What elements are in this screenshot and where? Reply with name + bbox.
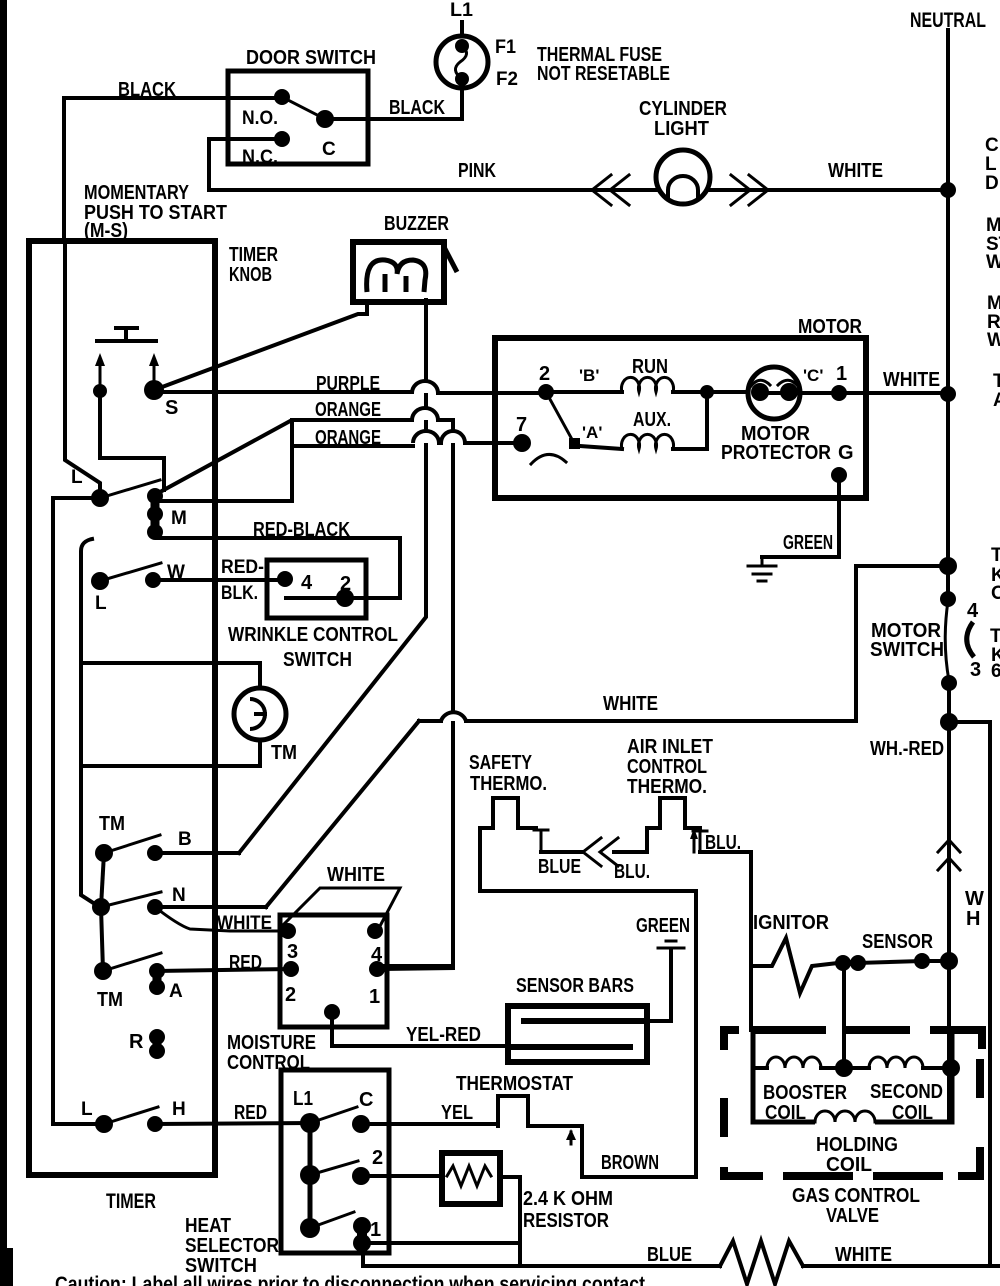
- svg-text:THERMOSTAT: THERMOSTAT: [456, 1073, 573, 1095]
- svg-text:GREEN: GREEN: [783, 532, 833, 554]
- junction N row: [92, 898, 110, 916]
- wire: blue run to air inlet thermo: [541, 850, 581, 854]
- contact L (W row): [91, 572, 109, 590]
- second coil: [844, 1066, 869, 1070]
- svg-text:1: 1: [369, 986, 380, 1008]
- arm pole3: [310, 1212, 354, 1228]
- wire: H to heat selector L1: [155, 1123, 310, 1124]
- svg-text:'B': 'B': [579, 366, 599, 385]
- contact A stack: [153, 971, 162, 987]
- wrinkle control switch box: [267, 560, 366, 618]
- svg-text:WH.-RED: WH.-RED: [870, 738, 944, 760]
- motor protector: [748, 367, 800, 419]
- svg-text:RESISTOR: RESISTOR: [523, 1210, 609, 1232]
- svg-text:VALVE: VALVE: [826, 1205, 879, 1227]
- resistor zigzag: [447, 1166, 491, 1186]
- junction neutral x white: [939, 557, 957, 575]
- svg-text:1: 1: [370, 1219, 381, 1241]
- svg-text:COIL: COIL: [826, 1154, 872, 1176]
- ignitor zigzag: [751, 938, 838, 993]
- svg-text:WHITE: WHITE: [327, 864, 385, 886]
- svg-text:TIMER: TIMER: [229, 244, 278, 266]
- junction run/aux: [700, 385, 714, 399]
- svg-text:SENSOR BARS: SENSOR BARS: [516, 975, 634, 997]
- sensor wire: [858, 961, 949, 963]
- wrinkle contact 4: [277, 571, 293, 587]
- svg-text:3: 3: [287, 941, 298, 963]
- chevrons blue: [583, 838, 618, 866]
- svg-text:MOMENTARY: MOMENTARY: [84, 182, 190, 204]
- svg-text:WHITE: WHITE: [883, 369, 940, 391]
- resistor 2.4k box: [442, 1153, 500, 1204]
- arm L to W: [100, 563, 161, 581]
- wire: moisture bottom to sensor bars: [332, 1012, 508, 1046]
- svg-text:ORANGE: ORANGE: [315, 427, 381, 449]
- svg-text:BLU.: BLU.: [614, 861, 650, 883]
- svg-text:PURPLE: PURPLE: [316, 373, 380, 395]
- heat sel pole 2: [300, 1165, 320, 1185]
- svg-text:BOOSTER: BOOSTER: [763, 1082, 847, 1104]
- svg-text:T: T: [990, 626, 1000, 647]
- door switch contact N.C.: [274, 131, 290, 147]
- svg-text:F2: F2: [496, 69, 518, 90]
- chevrons right of cylinder light: [731, 175, 768, 205]
- wire orange1: M to descent corner: [160, 420, 412, 492]
- svg-text:WHITE: WHITE: [828, 160, 883, 182]
- thermostat tick: [570, 1132, 573, 1144]
- contact TM (B row): [95, 844, 113, 862]
- svg-text:ORANGE: ORANGE: [315, 399, 381, 421]
- motor contact 2: [538, 384, 554, 400]
- gas valve inner box: [753, 1030, 952, 1122]
- door switch contact C: [316, 110, 334, 128]
- svg-text:T: T: [993, 371, 1000, 392]
- svg-text:W: W: [987, 330, 1000, 351]
- chevrons left of cylinder light: [592, 175, 629, 205]
- wire red-black: M to wrinkle 2: [157, 538, 400, 598]
- svg-text:WHITE: WHITE: [835, 1244, 892, 1266]
- svg-text:R: R: [129, 1031, 144, 1053]
- svg-text:PROTECTOR: PROTECTOR: [721, 442, 831, 464]
- contact L (bottom row): [95, 1115, 113, 1133]
- svg-text:SENSOR: SENSOR: [862, 931, 933, 953]
- TM lamp: [234, 688, 286, 740]
- WH up arrows: [938, 840, 960, 870]
- svg-text:SECOND: SECOND: [870, 1081, 943, 1103]
- svg-text:RUN: RUN: [632, 356, 668, 378]
- moisture pin 3: [280, 923, 296, 939]
- arm N: [101, 892, 161, 907]
- door switch DS1 box: [228, 71, 368, 164]
- ground symbol (motor): [748, 557, 776, 581]
- wire to protector: [707, 390, 748, 394]
- svg-text:CONTROL: CONTROL: [627, 756, 707, 778]
- contact H: [147, 1116, 163, 1132]
- svg-text:BLUE: BLUE: [538, 856, 581, 878]
- svg-text:M: M: [987, 293, 1000, 314]
- safety thermo symbol: [480, 798, 536, 828]
- wire: G to ground: [762, 475, 839, 557]
- svg-text:D: D: [985, 173, 999, 194]
- svg-text:WHITE: WHITE: [603, 693, 658, 715]
- wire: pin1 to orange1 descent: [377, 968, 453, 969]
- wire: inner vertical from top to L: [65, 241, 100, 491]
- booster coil: [753, 1066, 767, 1070]
- svg-text:TIMER: TIMER: [106, 1190, 156, 1213]
- svg-text:YEL: YEL: [441, 1102, 473, 1124]
- run winding coil: [554, 390, 622, 394]
- svg-text:RED-: RED-: [221, 557, 264, 578]
- wire: A to moisture pin 2: [157, 969, 291, 971]
- svg-text:F1: F1: [495, 37, 516, 58]
- svg-text:RED: RED: [229, 952, 262, 974]
- heat sel pole link: [308, 1123, 313, 1228]
- cylinder light lamp: [656, 150, 710, 204]
- door switch contact N.O.: [274, 89, 290, 105]
- junction sensor x WH line: [940, 952, 958, 970]
- wire: left vertical x=53 down to L-H row: [53, 498, 104, 1124]
- svg-text:Caution: Label all wires prior: Caution: Label all wires prior to discon…: [55, 1273, 645, 1286]
- arm L to H: [104, 1107, 158, 1124]
- svg-text:H: H: [966, 908, 980, 930]
- scan border left edge: [0, 0, 7, 1286]
- svg-text:6: 6: [991, 661, 1000, 682]
- moisture pin 4: [367, 923, 383, 939]
- junction neutral x pink: [940, 182, 956, 198]
- contact M stack: [151, 496, 160, 532]
- contact L upper: [91, 489, 109, 507]
- heat sel contact 2: [352, 1167, 370, 1185]
- door switch arm N.O. to C: [282, 97, 325, 119]
- svg-text:MOTOR: MOTOR: [798, 316, 862, 338]
- heat sel pole 3: [300, 1218, 320, 1238]
- ignitor junction dots: [835, 955, 851, 971]
- wire: safety thermo left loop: [480, 828, 696, 1177]
- svg-text:TM: TM: [271, 742, 297, 764]
- wrinkle contact 2: [336, 589, 354, 607]
- wire: bottom blue run: [363, 1264, 720, 1268]
- svg-text:RED-BLACK: RED-BLACK: [253, 519, 350, 541]
- svg-text:4: 4: [967, 600, 979, 622]
- wire: orange1 descent vertical x=453 to moisture pin 1: [374, 420, 453, 966]
- contact R stack: [153, 1037, 162, 1051]
- svg-text:'C': 'C': [803, 366, 823, 385]
- svg-text:IGNITOR: IGNITOR: [753, 912, 830, 934]
- svg-text:C: C: [322, 139, 336, 160]
- svg-text:BUZZER: BUZZER: [384, 213, 449, 235]
- wire: heat sel 2 to resistor: [361, 1174, 442, 1178]
- wire: B to D1: [155, 851, 239, 855]
- sensor bar lower: [508, 1044, 633, 1050]
- wire wrinkle internal to 2: [286, 596, 345, 600]
- wire: black from left to door switch N.O.: [64, 96, 282, 100]
- wire: buzzer terminal vertical to D1 diagonal (to timer B): [239, 300, 426, 853]
- wire: pink/white run to neutral: [209, 188, 948, 192]
- wire: inner shelf y=663 to TM lamp: [81, 661, 260, 665]
- arm L1-C: [310, 1107, 357, 1123]
- wire: long white run to neutral: [419, 719, 441, 723]
- svg-text:A: A: [169, 981, 183, 1002]
- wire: thermostat down to brown: [582, 1127, 696, 1177]
- gas valve dashed box: [724, 1030, 982, 1176]
- aux winding coil: [580, 446, 622, 449]
- svg-text:2: 2: [372, 1147, 383, 1169]
- svg-text:L1: L1: [450, 0, 473, 21]
- svg-text:CYLINDER: CYLINDER: [639, 98, 727, 120]
- motor arm motion arc: [531, 454, 566, 464]
- moisture bottom pin: [324, 1004, 340, 1020]
- sensor contact dot: [914, 953, 930, 969]
- svg-text:YEL-RED: YEL-RED: [406, 1024, 481, 1046]
- arm A: [103, 953, 161, 971]
- svg-text:3: 3: [970, 659, 981, 681]
- svg-text:W: W: [986, 252, 1000, 273]
- svg-text:N.C.: N.C.: [242, 147, 278, 168]
- contact N: [147, 899, 163, 915]
- motor contact 7: [513, 434, 531, 452]
- wire: neutral lower vertical (WH): [947, 683, 951, 1122]
- svg-text:LIGHT: LIGHT: [654, 118, 709, 140]
- svg-text:TM: TM: [99, 813, 125, 835]
- motor contact G: [831, 467, 847, 483]
- svg-text:RED: RED: [234, 1102, 267, 1124]
- wire: fuse to L1 stub: [460, 22, 464, 36]
- svg-text:MOISTURE: MOISTURE: [227, 1032, 316, 1054]
- moisture pin 1: [369, 961, 385, 977]
- wire: inner vertical x=81: [81, 539, 98, 906]
- arm TM to B: [104, 835, 160, 853]
- svg-text:7: 7: [516, 414, 527, 436]
- svg-text:C: C: [985, 135, 999, 156]
- svg-text:C: C: [359, 1089, 373, 1111]
- svg-text:T: T: [991, 545, 1000, 566]
- wire: buzzer left terminal to S diagonal: [154, 303, 367, 390]
- svg-text:SWITCH: SWITCH: [870, 639, 944, 661]
- contact W: [145, 572, 161, 588]
- contact B: [147, 845, 163, 861]
- motor arm 2 to A: [546, 392, 574, 443]
- svg-text:AIR INLET: AIR INLET: [627, 736, 713, 758]
- moisture pin 2: [283, 961, 299, 977]
- svg-text:DOOR SWITCH: DOOR SWITCH: [246, 47, 376, 69]
- svg-text:SWITCH: SWITCH: [283, 649, 352, 671]
- thermal fuse F1/F2: [436, 36, 488, 88]
- wire: L to left vertical: [53, 496, 100, 500]
- svg-text:GAS CONTROL: GAS CONTROL: [792, 1185, 920, 1207]
- svg-text:L: L: [81, 1099, 93, 1120]
- arm L to M: [100, 480, 160, 498]
- wire orange2: M bottom to motor 7: [292, 444, 413, 448]
- wire: N down to moisture pin 3: [155, 907, 288, 931]
- blu tick arrow: [693, 835, 696, 852]
- svg-text:O: O: [991, 583, 1000, 604]
- svg-text:SAFETY: SAFETY: [469, 752, 533, 774]
- wire: air inlet to ignitor vertical: [700, 852, 751, 1030]
- svg-text:BROWN: BROWN: [601, 1152, 659, 1174]
- heat selector switch box: [281, 1070, 389, 1253]
- arm pole2: [310, 1161, 358, 1175]
- timer outer box: [29, 241, 215, 1175]
- wire: neutral branch to right border: [949, 722, 990, 1266]
- svg-text:W: W: [965, 888, 984, 910]
- svg-text:BLACK: BLACK: [118, 79, 176, 101]
- motor contact 1: [831, 385, 847, 401]
- svg-text:H: H: [172, 1099, 186, 1120]
- contact TM (A row): [94, 962, 112, 980]
- svg-text:GREEN: GREEN: [636, 915, 690, 937]
- svg-text:N.O.: N.O.: [242, 108, 278, 129]
- ground symbol (sensor): [658, 941, 684, 948]
- svg-text:N: N: [172, 885, 186, 906]
- svg-text:M: M: [986, 215, 1000, 236]
- motor box M1: [495, 338, 866, 498]
- push button arrows: [100, 362, 154, 387]
- svg-text:WHITE: WHITE: [217, 913, 272, 934]
- buzzer coil: [367, 260, 426, 292]
- wire: ignitor junction down to coils: [842, 963, 846, 1068]
- svg-text:NOT RESETABLE: NOT RESETABLE: [537, 63, 670, 85]
- heat sel contact 1 stack: [357, 1226, 367, 1243]
- diagonal D2: white wire to N: [266, 721, 419, 907]
- wire: door N.C. to pink wire corner: [209, 139, 282, 190]
- svg-text:'A': 'A': [582, 423, 602, 442]
- wire protector to 1 to neutral: [800, 391, 948, 395]
- svg-text:1: 1: [836, 363, 847, 385]
- wire: link N to A: [101, 907, 103, 971]
- buzzer striker stub: [444, 247, 457, 272]
- svg-text:AUX.: AUX.: [633, 409, 671, 431]
- svg-text:2.4 K OHM: 2.4 K OHM: [523, 1188, 613, 1210]
- wire: neutral main vertical: [946, 30, 950, 599]
- momentary contact left: [93, 384, 107, 398]
- svg-text:S: S: [165, 397, 178, 419]
- air inlet control thermo symbol: [647, 798, 700, 852]
- heat sel contact C: [352, 1115, 370, 1133]
- svg-text:BLUE: BLUE: [647, 1244, 692, 1266]
- sensor bar upper: [521, 1018, 645, 1024]
- svg-text:HOLDING: HOLDING: [816, 1134, 898, 1156]
- wire: TM lamp top stem: [258, 663, 262, 688]
- wire: C to thermostat: [361, 1122, 498, 1126]
- second coil right junction: [942, 1059, 960, 1077]
- svg-text:B: B: [178, 829, 192, 850]
- bottom zigzag: [720, 1241, 803, 1284]
- momentary contact S: [144, 380, 164, 400]
- moisture control white callout: [282, 888, 400, 926]
- svg-text:BLK.: BLK.: [221, 583, 258, 604]
- svg-text:L1: L1: [293, 1088, 313, 1110]
- wire: left push contact down and over: [100, 391, 164, 490]
- junction neutral x motor white: [940, 386, 956, 402]
- push button bar: [97, 328, 156, 341]
- svg-text:HEAT: HEAT: [185, 1215, 231, 1237]
- heat sel pole L1: [300, 1113, 320, 1133]
- svg-text:TM: TM: [97, 989, 123, 1011]
- svg-text:2: 2: [285, 984, 296, 1006]
- wire: door C to thermal fuse: [325, 90, 462, 119]
- wire purple: S to motor 2 with hop: [154, 390, 412, 394]
- wire: motor switch arm on neutral: [945, 601, 949, 681]
- svg-text:THERMO.: THERMO.: [627, 776, 707, 798]
- wire: N to D2 takeoff: [155, 905, 266, 909]
- holding coil: [815, 1111, 875, 1122]
- svg-text:4: 4: [301, 572, 313, 594]
- junction booster/second: [835, 1059, 853, 1077]
- svg-text:COIL: COIL: [765, 1102, 806, 1124]
- svg-text:BLACK: BLACK: [389, 97, 445, 119]
- svg-text:A: A: [993, 390, 1000, 411]
- svg-text:2: 2: [539, 363, 550, 385]
- moisture control box: [280, 915, 387, 1027]
- svg-text:KNOB: KNOB: [229, 264, 272, 286]
- sensor bars box: [508, 1006, 647, 1062]
- svg-text:L: L: [95, 593, 107, 614]
- motor switch bracket: [967, 622, 974, 657]
- svg-text:G: G: [838, 442, 854, 464]
- wire: vertical black down to timer box: [62, 98, 66, 241]
- svg-text:L: L: [71, 467, 83, 488]
- wire: heat sel 1 to resistor drop: [362, 1241, 520, 1245]
- thermostat symbol: [498, 1096, 582, 1126]
- svg-text:M: M: [171, 508, 187, 529]
- svg-text:SELECTOR: SELECTOR: [185, 1235, 279, 1257]
- buzzer box: [353, 242, 444, 302]
- svg-text:L: L: [985, 154, 997, 175]
- wire: W to wrinkle 4: [153, 578, 285, 582]
- motor switch contacts on neutral: [940, 591, 956, 607]
- svg-text:THERMO.: THERMO.: [470, 773, 547, 795]
- wire: bottom white run: [803, 1264, 1000, 1268]
- wire: ground to sensor bar: [645, 950, 671, 1021]
- wire: resistor right down to pin1 wire: [500, 1177, 520, 1266]
- scan border bottom-left mark: [7, 1248, 13, 1286]
- wire: stub from box bottom to blue wire: [361, 1255, 365, 1266]
- svg-text:WRINKLE CONTROL: WRINKLE CONTROL: [228, 624, 398, 646]
- svg-text:PINK: PINK: [458, 160, 496, 182]
- wire: TM lamp bottom stem and shelf y=766: [81, 740, 260, 766]
- wire: link TM-B to N junction: [101, 853, 104, 907]
- svg-text:COIL: COIL: [892, 1102, 933, 1124]
